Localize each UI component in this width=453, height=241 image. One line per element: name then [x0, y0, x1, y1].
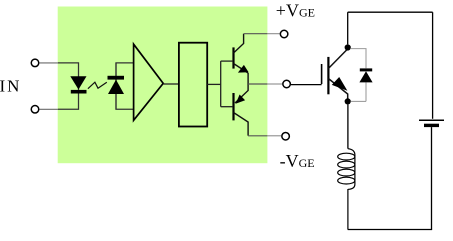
svg-text:IN: IN — [0, 76, 21, 95]
svg-text:+VGE: +VGE — [276, 0, 315, 20]
svg-text:-VGE: -VGE — [280, 151, 315, 171]
